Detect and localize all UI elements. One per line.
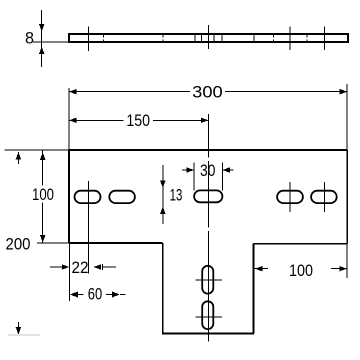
label 300 bbox=[192, 83, 223, 102]
svg-text:13: 13 bbox=[170, 186, 183, 205]
side view tick tab right edge bbox=[253, 35, 255, 42]
svg-text:100: 100 bbox=[32, 185, 54, 204]
dimension 100 left bbox=[40, 150, 46, 243]
dimension 13 bbox=[160, 165, 166, 224]
vertical slot upper bbox=[202, 266, 213, 294]
right edge extension below bbox=[346, 244, 348, 279]
svg-text:22: 22 bbox=[72, 258, 89, 277]
label 200 bbox=[6, 234, 31, 253]
slot1 centerline vertical bbox=[88, 181, 90, 274]
slot 2 bbox=[109, 191, 135, 203]
svg-text:30: 30 bbox=[200, 161, 215, 180]
svg-text:100: 100 bbox=[289, 261, 313, 280]
dimension 300 bbox=[69, 84, 347, 150]
svg-text:8: 8 bbox=[25, 29, 34, 48]
step bottom extension left bbox=[37, 242, 69, 244]
svg-text:200: 200 bbox=[6, 234, 31, 253]
side view tick mid slot right end bbox=[221, 35, 223, 42]
front view top edge bbox=[69, 149, 347, 151]
slot 1 bbox=[75, 191, 101, 203]
side view tick mid slot left end bbox=[194, 35, 196, 42]
svg-text:300: 300 bbox=[192, 83, 223, 102]
side view middle centerline bbox=[207, 25, 209, 49]
svg-text:60: 60 bbox=[88, 284, 103, 303]
label 150 bbox=[126, 111, 150, 130]
front view left step bottom edge bbox=[69, 242, 163, 244]
side view tick vslot right edge bbox=[213, 35, 215, 42]
side view tick vslot left edge bbox=[201, 35, 203, 42]
label 60 bbox=[88, 284, 103, 303]
svg-text:150: 150 bbox=[126, 111, 150, 130]
label 100 left bbox=[32, 185, 54, 204]
front view left edge bbox=[68, 150, 70, 243]
vertical slot lower bbox=[202, 301, 213, 329]
side view tick tab left edge bbox=[162, 35, 164, 42]
dimension 60 bbox=[70, 292, 126, 298]
dimension 8 line bbox=[39, 10, 45, 67]
slot4 centerline vertical bbox=[323, 182, 325, 212]
side view tick between slots 1-2 bbox=[102, 35, 104, 42]
slot 3 bbox=[277, 191, 303, 203]
side view slot1 centerline bbox=[88, 26, 90, 51]
side view slot4 centerline bbox=[323, 27, 325, 50]
middle centerline vertical bbox=[207, 114, 209, 342]
label 100 right bbox=[289, 261, 313, 280]
side view tick between slots 3-4 bbox=[306, 35, 308, 42]
tab right edge bbox=[252, 244, 254, 334]
dimension 200 bbox=[8, 152, 40, 335]
dimension 150 bbox=[69, 118, 208, 124]
right step bottom edge bbox=[253, 243, 347, 245]
label 22 bbox=[72, 258, 89, 277]
slot 4 bbox=[311, 191, 337, 203]
tab bottom edge bbox=[162, 332, 254, 334]
label 13 bbox=[170, 186, 183, 205]
front view top edge extension left bbox=[4, 149, 69, 151]
dimension 22 bbox=[50, 243, 116, 301]
side view slot3 centerline bbox=[289, 27, 291, 50]
side view plate outline bbox=[69, 34, 348, 42]
side view bottom edge extension line bbox=[33, 41, 69, 43]
label 8 bbox=[25, 29, 34, 48]
vslot lower horizontal centerline bbox=[196, 316, 223, 318]
front view right edge bbox=[346, 150, 348, 244]
slot3 centerline vertical bbox=[289, 182, 291, 212]
dimension 100 right bbox=[254, 266, 347, 272]
dimension 30 bbox=[182, 163, 233, 191]
tab left edge bbox=[162, 243, 164, 333]
label 30 bbox=[200, 161, 215, 180]
vslot upper horizontal centerline bbox=[196, 279, 223, 281]
side view tick dashed right bbox=[273, 35, 275, 42]
middle slot bbox=[194, 190, 222, 202]
